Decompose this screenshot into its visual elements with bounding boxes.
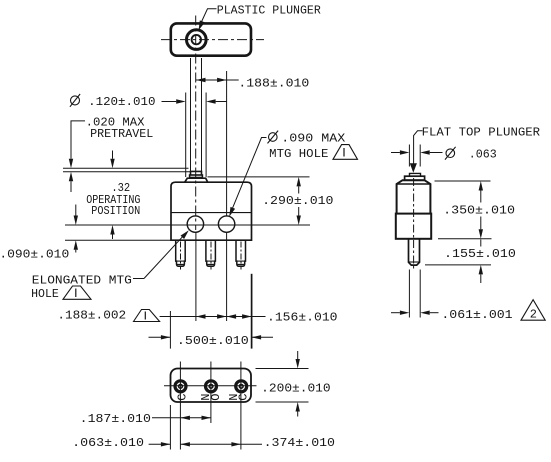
top view body [171, 23, 251, 55]
flag triangle 1 (.188 dim) [134, 310, 160, 322]
plunger cap (front view) [191, 171, 202, 175]
leader to flat top plunger [414, 131, 423, 164]
svg-text:.156±.010: .156±.010 [267, 310, 338, 324]
plunger base (front view) [185, 178, 208, 182]
operating position line / hole centerline [65, 224, 310, 226]
free position line [63, 167, 189, 169]
svg-text:POSITION: POSITION [91, 204, 140, 218]
dim dia .120: leader+arrows [162, 101, 177, 103]
leader to elongated hole [133, 278, 144, 280]
svg-text:.063: .063 [469, 148, 497, 162]
svg-text:.350±.010: .350±.010 [443, 204, 515, 218]
dim dia .063 extension lines [408, 145, 410, 167]
pretravel lower arrow [70, 181, 72, 192]
dim .155 top stem [480, 240, 482, 247]
stem bottom extension line [425, 264, 491, 266]
dim .188 top: dimension line [196, 79, 239, 81]
extension lines plunger cap (from top view inner circle) [190, 58, 192, 171]
svg-text:.120±.010: .120±.010 [88, 95, 155, 109]
dim .350 extension line top [435, 180, 491, 182]
svg-text:C: C [176, 394, 190, 401]
svg-text:.187±.010: .187±.010 [80, 412, 151, 426]
dim row .500 [149, 336, 171, 338]
svg-text:O: O [209, 394, 223, 401]
svg-text:.290±.010: .290±.010 [262, 194, 333, 208]
svg-text:ELONGATED MTG: ELONGATED MTG [32, 274, 132, 288]
terminal pin 3 (front view) [236, 240, 246, 266]
pin centerlines [180, 242, 182, 270]
bottom view vertical centerlines / extension lines [179, 362, 181, 450]
svg-text:.061±.001: .061±.001 [441, 308, 512, 322]
plunger lower section (right view) [396, 214, 431, 239]
extension lines down to dim rows [169, 311, 171, 349]
svg-text:PLASTIC PLUNGER: PLASTIC PLUNGER [217, 4, 321, 18]
vertical centerline (top view / plunger axis) [195, 16, 197, 231]
flag triangle 1 (elongated hole) [63, 286, 91, 299]
svg-text:MTG HOLE: MTG HOLE [269, 147, 328, 161]
dim .32 upper arrow [112, 151, 114, 159]
svg-text:.090±.010: .090±.010 [0, 247, 69, 261]
dim dia .120: diameter symbol [71, 96, 80, 105]
front view body mid line [171, 212, 252, 214]
plunger hole inner circle (top view) [192, 35, 201, 44]
terminal pin 1 (front view) [176, 240, 186, 266]
svg-text:.090 MAX: .090 MAX [281, 131, 345, 145]
svg-text:.155±.010: .155±.010 [444, 247, 516, 261]
right view centerline [413, 178, 415, 271]
plunger upper cylinder (right view) [397, 180, 431, 213]
svg-text:PRETRAVEL: PRETRAVEL [90, 127, 153, 141]
dim .090 lower arrow [75, 250, 77, 253]
bottom view body [171, 369, 252, 403]
bottom view horizontal centerline [164, 385, 257, 387]
dim .290 upper extension line [208, 176, 310, 178]
plunger cap (right view) [410, 173, 421, 176]
svg-text:.374±.010: .374±.010 [264, 436, 335, 450]
dim .32 lower arrow [112, 235, 114, 240]
horizontal centerline (top view) [161, 39, 264, 41]
plunger flange (right view) [405, 176, 425, 180]
dim .200 extension lines [256, 368, 309, 370]
dim .200 arrows [297, 351, 299, 359]
dim .061 arrows [391, 312, 400, 314]
part bottom extension line [438, 238, 492, 240]
front view body [171, 182, 252, 240]
plunger flange (front view) [190, 175, 203, 178]
body bottom extension line (left) [65, 239, 171, 241]
dim .290 dimension line+arrows [298, 186, 300, 193]
terminal pin 2 (front view) [206, 240, 216, 266]
dim dia .120: extension lines [185, 93, 187, 178]
dim dia .063 arrows [391, 152, 400, 154]
svg-text:.188±.010: .188±.010 [238, 76, 309, 90]
flag triangle 1 (mtg hole) [333, 145, 358, 160]
terminal circles (bottom view) [175, 381, 186, 392]
dim .188 top: extension line hole2 center [226, 71, 228, 216]
dim .155 lower arrow [480, 274, 482, 283]
mounting hole 1 (front view) [187, 216, 203, 232]
svg-text:C: C [237, 394, 251, 401]
plunger hole outer circle (top view) [187, 30, 207, 50]
dim .350 arrows [480, 191, 482, 203]
svg-text:.200±.010: .200±.010 [261, 382, 330, 396]
flag triangle 2 [521, 300, 545, 321]
leader to plastic plunger [201, 9, 217, 24]
pretravel line [63, 171, 190, 173]
pretravel bracket leader [71, 121, 85, 159]
svg-text:.063±.010: .063±.010 [72, 436, 144, 450]
svg-text:.188±.002: .188±.002 [57, 309, 126, 323]
dim .090 upper arrow [75, 205, 77, 216]
leader to mounting hole 2 [232, 138, 266, 209]
dim dia .063 text [446, 149, 455, 158]
plunger stem (right view) [409, 239, 420, 265]
dim .061 extension lines [408, 270, 410, 318]
svg-text:2: 2 [530, 308, 537, 322]
svg-text:.500±.010: .500±.010 [177, 334, 249, 348]
svg-text:FLAT TOP PLUNGER: FLAT TOP PLUNGER [422, 125, 540, 139]
svg-text:HOLE: HOLE [31, 287, 59, 301]
label dia .090 MAX MTG HOLE [269, 133, 278, 142]
mounting hole 2 (front view) [218, 216, 234, 232]
